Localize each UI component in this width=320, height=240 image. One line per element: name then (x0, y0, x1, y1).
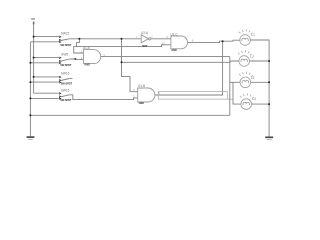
svg-text:SW22: SW22 (61, 31, 70, 35)
svg-text:L3: L3 (251, 76, 255, 80)
svg-text:U1:C: U1:C (171, 33, 179, 37)
svg-text:NOT: NOT (142, 44, 148, 48)
svg-text:U2:A: U2:A (141, 31, 149, 35)
svg-text:U1:A: U1:A (83, 46, 91, 50)
svg-text:SW5: SW5 (61, 52, 68, 56)
svg-text:L4: L4 (252, 97, 256, 101)
svg-text:SW-SPDT: SW-SPDT (60, 43, 72, 47)
svg-text:SW15: SW15 (61, 88, 70, 92)
svg-text:AND: AND (139, 101, 145, 105)
svg-text:AND: AND (84, 63, 90, 67)
svg-text:SW-SPDT: SW-SPDT (60, 63, 72, 67)
svg-text:SW16: SW16 (61, 72, 70, 76)
svg-text:SW-SPDT: SW-SPDT (61, 82, 73, 86)
svg-text:U1:B: U1:B (138, 84, 145, 88)
svg-text:SW-SPDT: SW-SPDT (60, 98, 72, 102)
svg-text:AND: AND (171, 48, 177, 52)
svg-text:L1: L1 (251, 33, 255, 37)
svg-text:L2: L2 (250, 55, 254, 59)
